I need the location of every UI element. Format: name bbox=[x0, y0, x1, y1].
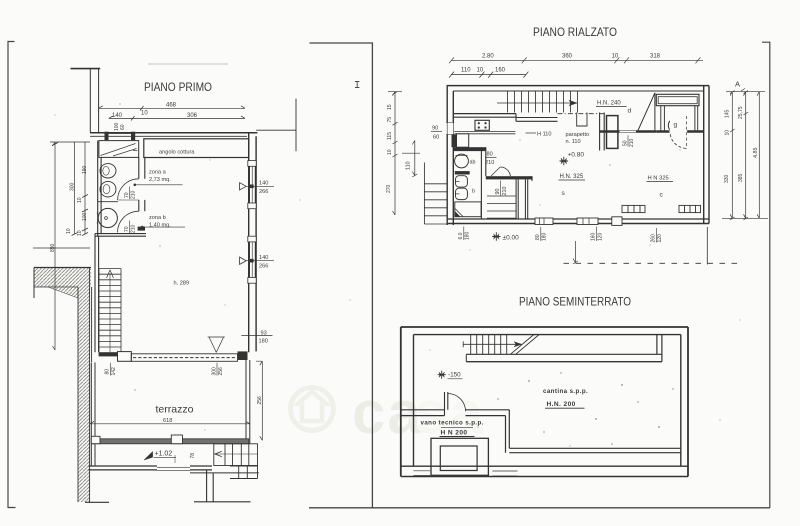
left dim chain 270 bbox=[394, 92, 396, 215]
svg-text:142: 142 bbox=[111, 367, 117, 376]
svg-text:60: 60 bbox=[120, 124, 126, 130]
svg-text:25,75: 25,75 bbox=[738, 106, 744, 119]
svg-text:618: 618 bbox=[163, 418, 172, 424]
dim row 110 10 160 bbox=[451, 74, 526, 76]
svg-text:360: 360 bbox=[562, 54, 573, 60]
vano tecnico door bbox=[445, 392, 448, 416]
svg-text:385: 385 bbox=[738, 173, 744, 182]
toilet bbox=[100, 164, 116, 178]
right wall with windows bbox=[248, 133, 250, 353]
svg-text:1,40 mq.: 1,40 mq. bbox=[149, 223, 171, 229]
dark partition bbox=[455, 171, 470, 174]
svg-text:300: 300 bbox=[212, 367, 218, 376]
svg-text:+0.80: +0.80 bbox=[568, 152, 585, 159]
terrace parapet band bbox=[91, 439, 249, 444]
svg-text:468: 468 bbox=[166, 103, 177, 109]
outer walls bbox=[401, 326, 688, 328]
left dimension chains bbox=[33, 142, 90, 350]
svg-text:60: 60 bbox=[433, 135, 439, 141]
svg-text:78: 78 bbox=[190, 453, 196, 459]
window 2 symbol bbox=[240, 257, 247, 264]
svg-text:10: 10 bbox=[477, 68, 484, 74]
entrance steps inside bbox=[487, 196, 516, 218]
H 110 label bbox=[526, 132, 537, 134]
outer walls bbox=[447, 85, 709, 87]
washbasin rialzato bbox=[455, 154, 469, 168]
neighbor wall outline bbox=[256, 129, 296, 131]
svg-text:PIANO SEMINTERRATO: PIANO SEMINTERRATO bbox=[519, 297, 631, 309]
svg-text:140: 140 bbox=[259, 181, 268, 187]
svg-text:210: 210 bbox=[131, 190, 137, 199]
svg-text:270: 270 bbox=[386, 184, 392, 193]
svg-text:330: 330 bbox=[724, 174, 730, 183]
svg-text:210: 210 bbox=[131, 224, 137, 233]
svg-text:10: 10 bbox=[141, 111, 148, 117]
svg-text:93: 93 bbox=[261, 330, 267, 336]
terrace bottom wall right bbox=[190, 466, 212, 470]
svg-text:10: 10 bbox=[612, 54, 619, 60]
svg-text:2,73 mq.: 2,73 mq. bbox=[149, 177, 171, 183]
kitchen angolo cottura bbox=[144, 139, 249, 158]
svg-text:10: 10 bbox=[77, 197, 83, 203]
svg-text:266: 266 bbox=[259, 263, 268, 269]
page frame top middle bbox=[310, 43, 373, 508]
hatched wall horizontal bbox=[34, 268, 91, 288]
staircase primo bbox=[99, 269, 121, 353]
svg-text:b: b bbox=[472, 189, 475, 195]
+-0.00 marker bbox=[492, 232, 500, 240]
svg-text:H 110: H 110 bbox=[537, 131, 552, 137]
svg-text:180: 180 bbox=[542, 232, 548, 241]
svg-text:6.0: 6.0 bbox=[458, 232, 464, 239]
staircase rialzato bbox=[497, 91, 578, 113]
svg-text:15: 15 bbox=[387, 104, 393, 110]
external steps left bbox=[424, 163, 447, 225]
dim 110 steps bbox=[414, 141, 416, 176]
terrace stair lower flight bbox=[230, 466, 258, 479]
faint paper edge bbox=[148, 63, 228, 65]
svg-text:d: d bbox=[628, 108, 632, 115]
bathroom bottom wall bbox=[95, 233, 146, 235]
svg-text:210: 210 bbox=[629, 138, 635, 147]
svg-text:160: 160 bbox=[591, 232, 597, 241]
window in left wall 90x60 bbox=[446, 123, 454, 135]
svg-text:parapetto: parapetto bbox=[566, 132, 590, 138]
svg-text:210: 210 bbox=[485, 160, 494, 166]
page frame left bracket bbox=[8, 42, 16, 508]
right dim chains bbox=[726, 91, 765, 93]
corner wall vano tecnico right bbox=[506, 410, 510, 453]
door gap 50/210 bbox=[620, 129, 637, 135]
door arc g bbox=[670, 134, 686, 148]
+1.02 marker bbox=[144, 452, 153, 460]
ground lines bbox=[194, 501, 251, 503]
svg-text:10: 10 bbox=[725, 130, 731, 136]
svg-text:306: 306 bbox=[187, 113, 198, 119]
svg-text:-150: -150 bbox=[448, 371, 461, 378]
svg-text:190: 190 bbox=[82, 165, 88, 174]
staircase seminterrato bbox=[463, 335, 539, 355]
bidet bbox=[100, 181, 116, 197]
svg-text:H.N. 200: H.N. 200 bbox=[547, 401, 576, 408]
svg-text:75: 75 bbox=[387, 117, 393, 123]
terrace bottom wall left bbox=[88, 466, 157, 470]
svg-text:100: 100 bbox=[82, 212, 88, 221]
svg-text:140: 140 bbox=[112, 113, 123, 119]
dashed boundary bbox=[564, 262, 743, 264]
svg-text:300: 300 bbox=[70, 182, 76, 191]
svg-text:266: 266 bbox=[259, 189, 268, 195]
radiators room c bbox=[622, 205, 701, 212]
svg-text:H N 325: H N 325 bbox=[648, 176, 669, 182]
glazed sliding band bbox=[131, 354, 237, 362]
svg-text:180: 180 bbox=[465, 231, 471, 240]
svg-text:10: 10 bbox=[66, 228, 72, 234]
svg-text:terrazzo: terrazzo bbox=[156, 404, 194, 416]
svg-text:zona b: zona b bbox=[149, 215, 166, 221]
svg-text:H N 200: H N 200 bbox=[441, 430, 468, 437]
svg-text:zona a: zona a bbox=[149, 170, 167, 176]
bathroom left wall bbox=[98, 141, 101, 236]
svg-text:angolo cottura: angolo cottura bbox=[159, 150, 195, 156]
page frame right bracket bbox=[762, 42, 770, 508]
svg-text:115: 115 bbox=[387, 132, 393, 140]
shower bbox=[455, 202, 481, 217]
wall d/c bbox=[600, 130, 657, 133]
door arc zona a bbox=[118, 179, 139, 200]
svg-text:140: 140 bbox=[259, 255, 268, 261]
toilet rialzato bbox=[456, 176, 468, 187]
window 1 symbol bbox=[240, 183, 247, 190]
svg-text:PIANO RIALZATO: PIANO RIALZATO bbox=[533, 27, 617, 39]
hook detail bbox=[577, 113, 587, 127]
hinge wall bar bbox=[486, 176, 532, 179]
window 1 bbox=[250, 162, 256, 208]
svg-text:ab: ab bbox=[470, 160, 476, 166]
svg-text:120: 120 bbox=[657, 234, 663, 243]
kitchen counter bbox=[454, 132, 515, 134]
svg-text:210: 210 bbox=[502, 187, 508, 196]
wall pillar down bbox=[207, 470, 214, 502]
bathroom right wall bbox=[481, 147, 485, 219]
terrace bottom door gap bbox=[157, 467, 190, 470]
bottom wall of main room bbox=[99, 352, 118, 356]
kitchen stove box bbox=[475, 120, 489, 130]
bottom windows room s bbox=[535, 218, 553, 225]
svg-text:n. 110: n. 110 bbox=[566, 139, 581, 145]
bidet rialzato bbox=[456, 188, 468, 199]
svg-text:318: 318 bbox=[650, 54, 661, 60]
svg-text:ca: ca bbox=[352, 379, 423, 446]
door leaf rect room c bbox=[607, 116, 618, 149]
triangle ramp bbox=[638, 93, 655, 131]
svg-text:110: 110 bbox=[406, 161, 412, 170]
svg-text:g: g bbox=[674, 122, 678, 129]
svg-text:80: 80 bbox=[487, 152, 493, 158]
door post dark bbox=[138, 227, 145, 231]
left wall down to terrace bbox=[95, 234, 99, 353]
wall between s and d column bbox=[600, 113, 605, 151]
closet with diagonals (bathroom top) bbox=[99, 141, 139, 158]
watermark casa logo bbox=[291, 388, 334, 431]
bathroom inner wall bbox=[139, 157, 145, 178]
boiler box bbox=[431, 438, 488, 475]
bottom wall gaps bbox=[413, 468, 430, 476]
svg-text:110: 110 bbox=[461, 68, 471, 74]
dim line 468 bbox=[99, 107, 245, 109]
scan speckles bbox=[55, 103, 741, 430]
svg-text:h. 289: h. 289 bbox=[174, 281, 190, 287]
stair corridor band bbox=[466, 353, 662, 355]
terrace left wall bbox=[91, 363, 95, 467]
terrace staircase bbox=[214, 444, 258, 466]
window 2 bbox=[250, 240, 256, 279]
separator line bbox=[98, 201, 118, 203]
washbasin bbox=[98, 208, 117, 227]
page frame bottom bbox=[309, 507, 770, 509]
bathroom door leaf + arc bbox=[491, 167, 500, 176]
svg-text:180: 180 bbox=[259, 339, 268, 345]
svg-text:H.N. 325: H.N. 325 bbox=[560, 174, 584, 180]
corridor bottom wall bbox=[454, 114, 517, 118]
svg-text:PIANO PRIMO: PIANO PRIMO bbox=[144, 82, 212, 94]
svg-text:145: 145 bbox=[725, 109, 731, 118]
svg-text:H.N. 240: H.N. 240 bbox=[597, 101, 621, 107]
svg-text:256: 256 bbox=[257, 396, 263, 405]
door arc zona b bbox=[118, 211, 139, 232]
party wall stub top bbox=[71, 68, 101, 70]
svg-text:10: 10 bbox=[387, 149, 393, 155]
svg-text:4.85: 4.85 bbox=[753, 148, 759, 159]
door fan on glazing bbox=[208, 337, 225, 352]
hatched wall vertical bbox=[78, 287, 90, 502]
speckles bbox=[478, 372, 674, 446]
pilaster left bbox=[452, 135, 458, 148]
door opening in top wall bbox=[105, 132, 109, 140]
svg-text:260: 260 bbox=[651, 234, 657, 243]
wardrobe top right bbox=[656, 94, 699, 105]
svg-text:256: 256 bbox=[218, 367, 224, 376]
vano tecnico top wall bbox=[401, 410, 445, 416]
svg-text:90: 90 bbox=[495, 189, 501, 195]
svg-text:80: 80 bbox=[535, 234, 541, 240]
svg-text:vano tecnico s.p.p.: vano tecnico s.p.p. bbox=[421, 420, 484, 427]
wall g/c with door bbox=[656, 130, 703, 133]
svg-text:A: A bbox=[735, 80, 740, 89]
svg-text:70: 70 bbox=[124, 192, 130, 198]
svg-text:80: 80 bbox=[105, 369, 111, 375]
svg-text:+1.02: +1.02 bbox=[155, 451, 173, 458]
svg-text:70: 70 bbox=[124, 226, 130, 232]
svg-text:cantina s.p.p.: cantina s.p.p. bbox=[543, 388, 588, 395]
dim line 140 306 bbox=[109, 117, 245, 119]
corridor right wall bbox=[657, 335, 662, 362]
dim row 2.80 360 10 318 bbox=[451, 59, 703, 61]
terrace right wall bbox=[246, 360, 250, 444]
cantina inner bottom wall bbox=[509, 447, 681, 449]
dim 256 right bbox=[261, 361, 263, 440]
svg-text:120: 120 bbox=[597, 232, 603, 241]
dim 618 bbox=[90, 423, 250, 425]
svg-text:160: 160 bbox=[495, 68, 506, 74]
svg-text:2.80: 2.80 bbox=[482, 54, 494, 60]
svg-text:±0.00: ±0.00 bbox=[503, 234, 520, 241]
-150 marker bbox=[438, 371, 446, 379]
svg-text:90: 90 bbox=[432, 126, 438, 132]
svg-text:50: 50 bbox=[623, 140, 629, 146]
leader + label 93/180 bbox=[241, 335, 272, 337]
top wall of plan bbox=[90, 132, 257, 134]
walls below bar bbox=[516, 179, 518, 219]
section marker I bbox=[355, 82, 359, 88]
bathroom top wall bbox=[453, 147, 486, 151]
g closet side walls bbox=[661, 106, 665, 131]
railing dashed bbox=[558, 113, 605, 115]
